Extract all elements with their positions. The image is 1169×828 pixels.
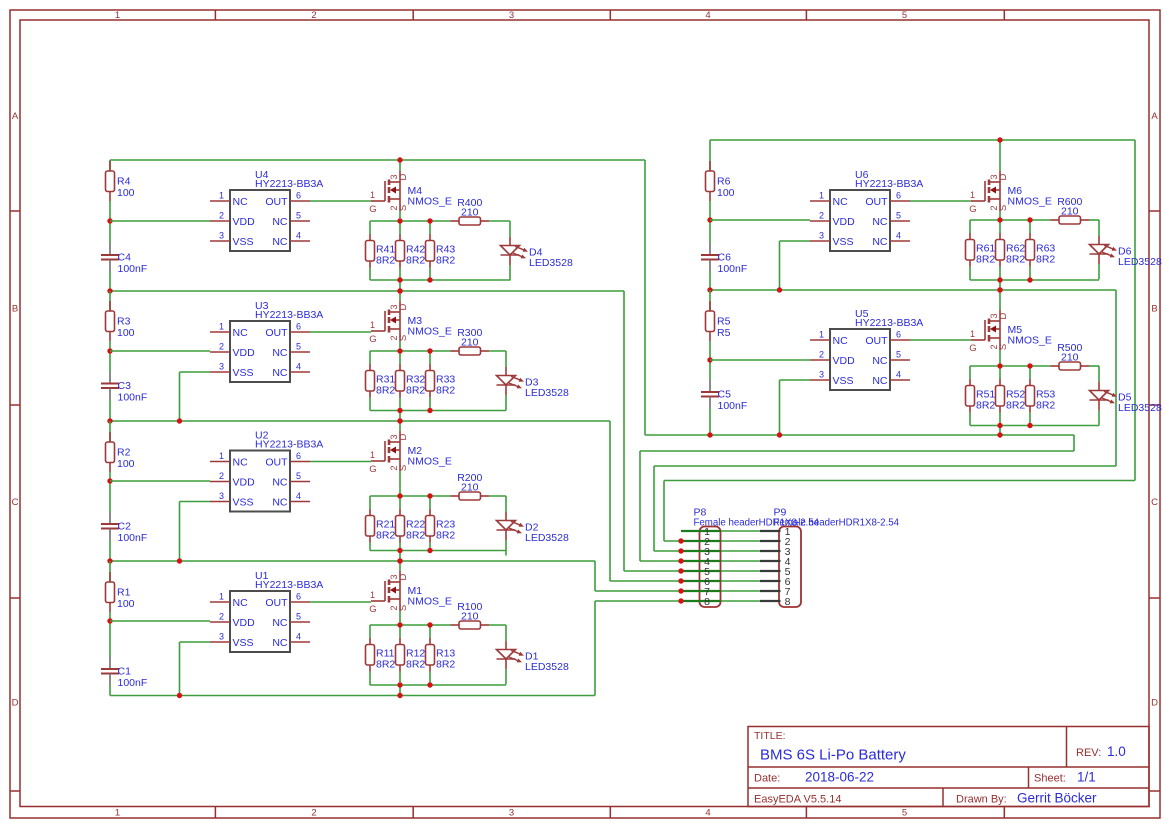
svg-text:Sheet:: Sheet: (1034, 773, 1066, 785)
resistor R23 (426, 516, 456, 542)
wire (399, 398, 401, 411)
svg-text:NMOS_E: NMOS_E (408, 196, 452, 208)
svg-text:100: 100 (117, 458, 135, 470)
wire (369, 398, 371, 411)
svg-text:D: D (998, 312, 1009, 319)
svg-text:100: 100 (117, 187, 135, 199)
wire (595, 600, 760, 602)
wire (370, 410, 506, 412)
junction (777, 287, 782, 292)
svg-text:NC: NC (272, 236, 288, 248)
svg-text:8R2: 8R2 (406, 255, 425, 267)
wire (399, 551, 401, 562)
resistor R52 (996, 386, 1026, 412)
svg-text:100nF: 100nF (718, 400, 748, 412)
wire (110, 695, 595, 697)
svg-text:NC: NC (233, 327, 249, 339)
svg-text:2: 2 (219, 612, 224, 622)
wire (369, 625, 371, 638)
svg-text:100nF: 100nF (118, 677, 148, 689)
capacitor C4 (101, 243, 147, 275)
wire (970, 219, 1051, 221)
svg-text:4: 4 (705, 10, 710, 21)
capacitor C6 (701, 243, 747, 275)
svg-text:LED3528: LED3528 (1118, 256, 1162, 268)
svg-text:B: B (1151, 304, 1157, 315)
LED D4 (501, 221, 573, 281)
svg-text:G: G (969, 343, 976, 354)
resistor R11 (366, 645, 396, 671)
wire (399, 221, 401, 234)
wire (109, 221, 111, 243)
svg-text:3: 3 (819, 231, 824, 241)
wire (999, 220, 1001, 233)
svg-text:2: 2 (219, 342, 224, 352)
wire (999, 366, 1001, 379)
svg-text:OUT: OUT (265, 456, 288, 468)
wire (969, 379, 971, 386)
svg-text:VSS: VSS (233, 637, 254, 649)
svg-text:NC: NC (233, 196, 249, 208)
svg-text:TITLE:: TITLE: (754, 730, 786, 742)
svg-text:R2: R2 (117, 447, 131, 459)
svg-text:1: 1 (370, 320, 375, 330)
resistor R1 (106, 582, 135, 610)
wire (429, 509, 431, 516)
svg-text:3: 3 (819, 370, 824, 380)
svg-text:NC: NC (233, 456, 249, 468)
junction (107, 348, 112, 353)
wire (399, 496, 401, 509)
svg-text:100nF: 100nF (718, 263, 748, 275)
wire (110, 220, 210, 222)
svg-text:1: 1 (219, 451, 224, 461)
wire (970, 425, 1099, 427)
svg-text:2: 2 (819, 350, 824, 360)
wire (110, 290, 624, 292)
junction (397, 418, 402, 423)
svg-text:NC: NC (833, 335, 849, 347)
wire (969, 413, 971, 426)
resistor R400 (451, 197, 490, 225)
wire (110, 480, 210, 482)
wire (109, 561, 111, 582)
wire (1029, 379, 1031, 386)
junction (397, 418, 402, 423)
svg-text:8R2: 8R2 (976, 254, 995, 266)
resistor R51 (966, 386, 996, 412)
svg-text:8R2: 8R2 (376, 255, 395, 267)
svg-text:210: 210 (1061, 206, 1079, 218)
svg-text:4: 4 (296, 632, 301, 642)
wire (429, 543, 431, 551)
wire (109, 612, 111, 621)
svg-text:VDD: VDD (233, 617, 256, 629)
IC U4 (210, 169, 323, 251)
svg-text:G: G (369, 604, 376, 615)
wire (429, 398, 431, 411)
header P9 (760, 507, 900, 608)
wire (109, 201, 111, 221)
resistor R32 (396, 371, 426, 397)
junction (427, 548, 432, 553)
svg-text:1: 1 (115, 808, 120, 819)
svg-text:1: 1 (970, 190, 975, 200)
wire (110, 560, 595, 562)
junction (1027, 217, 1032, 222)
svg-text:8R2: 8R2 (1036, 400, 1055, 412)
svg-text:NC: NC (272, 617, 288, 629)
wire (399, 364, 401, 371)
svg-text:NC: NC (272, 367, 288, 379)
wire (780, 240, 811, 242)
wire (370, 624, 451, 626)
junction (107, 418, 112, 423)
svg-text:Gerrit Böcker: Gerrit Böcker (1017, 791, 1097, 806)
wire (1029, 267, 1031, 281)
svg-text:8R2: 8R2 (376, 385, 395, 397)
svg-text:C: C (1151, 497, 1158, 508)
wire (489, 220, 510, 222)
svg-text:3: 3 (509, 10, 514, 21)
junction (678, 578, 683, 583)
svg-text:8R2: 8R2 (376, 659, 395, 671)
wire (1029, 366, 1031, 379)
svg-text:4: 4 (296, 231, 301, 241)
svg-text:VSS: VSS (233, 236, 254, 248)
wire (709, 360, 711, 380)
wire (1029, 220, 1031, 233)
wire (369, 496, 371, 509)
junction (427, 348, 432, 353)
junction (177, 558, 182, 563)
wire (594, 601, 596, 696)
svg-text:6: 6 (896, 191, 901, 201)
svg-text:5: 5 (902, 808, 907, 819)
wire (709, 140, 711, 171)
svg-text:VDD: VDD (833, 216, 856, 228)
capacitor C5 (701, 380, 747, 412)
wire (109, 351, 111, 372)
wire (653, 466, 655, 551)
wire (399, 638, 401, 645)
svg-text:NC: NC (833, 196, 849, 208)
wire (109, 160, 111, 171)
svg-text:3: 3 (219, 491, 224, 501)
svg-text:REV:: REV: (1076, 747, 1101, 759)
wire (709, 161, 711, 171)
wire (709, 220, 711, 243)
svg-text:G: G (369, 204, 376, 215)
svg-text:3: 3 (219, 362, 224, 372)
IC U2 (210, 429, 323, 511)
svg-text:8R2: 8R2 (406, 530, 425, 542)
svg-text:5: 5 (296, 612, 301, 622)
svg-text:C5: C5 (718, 389, 732, 401)
wire (369, 364, 371, 371)
resistor R22 (396, 516, 426, 542)
svg-text:VSS: VSS (233, 496, 254, 508)
wire (969, 220, 971, 233)
svg-text:2: 2 (219, 471, 224, 481)
IC U5 (810, 308, 923, 390)
wire (369, 234, 371, 241)
svg-text:LED3528: LED3528 (1118, 402, 1162, 414)
mosfet M3 (369, 291, 452, 351)
svg-text:1: 1 (819, 330, 824, 340)
svg-text:2: 2 (819, 211, 824, 221)
wire (399, 543, 401, 551)
svg-text:D: D (398, 303, 409, 310)
LED D3 (497, 351, 569, 411)
junction (997, 217, 1002, 222)
svg-text:D: D (398, 573, 409, 580)
mosfet M4 (369, 160, 452, 221)
svg-text:VDD: VDD (233, 216, 256, 228)
svg-text:100nF: 100nF (118, 532, 148, 544)
junction (997, 363, 1002, 368)
wire (399, 685, 401, 696)
svg-text:100: 100 (717, 187, 735, 199)
capacitor C2 (101, 512, 147, 544)
wire (429, 625, 431, 638)
wire (709, 201, 711, 220)
svg-text:NC: NC (272, 476, 288, 488)
junction (678, 558, 683, 563)
junction (707, 217, 712, 222)
wire (369, 221, 371, 234)
svg-text:100: 100 (117, 327, 135, 339)
svg-text:5: 5 (896, 350, 901, 360)
wire (110, 350, 210, 352)
wire (429, 638, 431, 645)
wire (624, 570, 760, 572)
junction (107, 558, 112, 563)
svg-text:D: D (398, 433, 409, 440)
wire (910, 200, 971, 202)
wire (370, 550, 506, 552)
wire (639, 451, 641, 561)
svg-text:VSS: VSS (833, 375, 854, 387)
svg-text:8R2: 8R2 (1006, 400, 1025, 412)
junction (997, 287, 1002, 292)
svg-text:5: 5 (902, 10, 907, 21)
wire (780, 379, 811, 381)
svg-text:HY2213-BB3A: HY2213-BB3A (255, 439, 323, 451)
junction (707, 287, 712, 292)
wire (109, 400, 111, 422)
wire (179, 642, 181, 696)
svg-text:R5: R5 (717, 316, 731, 328)
junction (397, 558, 402, 563)
svg-text:NC: NC (272, 496, 288, 508)
mosfet M6 (969, 140, 1052, 220)
LED D5 (1090, 366, 1162, 426)
IC U3 (210, 300, 323, 382)
svg-text:8R2: 8R2 (376, 530, 395, 542)
junction (427, 493, 432, 498)
svg-text:8R2: 8R2 (1036, 254, 1055, 266)
wire (369, 543, 371, 551)
svg-text:1: 1 (970, 329, 975, 339)
mosfet M1 (369, 561, 452, 625)
svg-text:210: 210 (461, 482, 479, 494)
resistor R5 (706, 311, 731, 339)
svg-text:NMOS_E: NMOS_E (408, 326, 452, 338)
svg-text:4: 4 (296, 491, 301, 501)
wire (369, 268, 371, 281)
junction (427, 622, 432, 627)
wire (710, 219, 810, 221)
wire (179, 502, 181, 562)
wire (180, 371, 211, 373)
resistor R21 (366, 516, 396, 542)
wire (399, 234, 401, 241)
junction (397, 682, 402, 687)
svg-text:2: 2 (311, 808, 316, 819)
junction (678, 568, 683, 573)
svg-text:4: 4 (896, 370, 901, 380)
wire (710, 289, 1116, 291)
wire (999, 426, 1001, 436)
svg-text:3: 3 (219, 231, 224, 241)
junction (997, 137, 1002, 142)
svg-text:Drawn By:: Drawn By: (956, 794, 1007, 806)
wire (399, 411, 401, 422)
wire (399, 672, 401, 686)
junction (397, 558, 402, 563)
resistor R42 (396, 241, 426, 267)
svg-text:R6: R6 (717, 176, 731, 188)
svg-text:Date:: Date: (754, 773, 780, 785)
junction (427, 408, 432, 413)
wire (1029, 413, 1031, 426)
svg-text:BMS 6S Li-Po Battery: BMS 6S Li-Po Battery (760, 747, 906, 764)
svg-text:HY2213-BB3A: HY2213-BB3A (255, 579, 323, 591)
wire (429, 364, 431, 371)
resistor R33 (426, 371, 456, 397)
svg-text:C6: C6 (718, 252, 732, 264)
wire (109, 271, 111, 291)
svg-text:Female headerHDR1X8-2.54: Female headerHDR1X8-2.54 (774, 518, 900, 529)
svg-text:8R2: 8R2 (406, 385, 425, 397)
svg-text:VSS: VSS (233, 367, 254, 379)
wire (369, 509, 371, 516)
wire (1115, 290, 1117, 466)
svg-text:5: 5 (296, 471, 301, 481)
svg-text:C4: C4 (118, 252, 132, 264)
resistor R61 (966, 240, 996, 266)
svg-text:OUT: OUT (865, 196, 888, 208)
svg-text:1: 1 (370, 190, 375, 200)
wire (109, 472, 111, 481)
wire (310, 601, 371, 603)
svg-text:6: 6 (296, 451, 301, 461)
svg-text:R4: R4 (117, 176, 131, 188)
junction (678, 548, 683, 553)
junction (707, 432, 712, 437)
svg-text:VDD: VDD (833, 355, 856, 367)
header P8 (681, 507, 820, 608)
svg-text:4: 4 (896, 231, 901, 241)
svg-text:1: 1 (219, 592, 224, 602)
resistor R43 (426, 241, 456, 267)
wire (399, 351, 401, 364)
svg-text:OUT: OUT (265, 327, 288, 339)
wire (109, 685, 111, 696)
svg-text:D: D (12, 698, 19, 709)
svg-text:NC: NC (233, 597, 249, 609)
wire (310, 461, 371, 463)
svg-text:8R2: 8R2 (436, 385, 455, 397)
svg-text:OUT: OUT (865, 335, 888, 347)
wire (109, 572, 111, 582)
svg-text:LED3528: LED3528 (525, 532, 569, 544)
svg-text:2: 2 (311, 10, 316, 21)
wire (610, 580, 760, 582)
svg-text:NMOS_E: NMOS_E (1008, 335, 1052, 347)
wire (970, 365, 1051, 367)
wire (369, 351, 371, 364)
wire (1029, 233, 1031, 240)
wire (969, 233, 971, 240)
svg-text:1.0: 1.0 (1107, 744, 1126, 759)
wire (664, 540, 760, 542)
wire (1089, 365, 1099, 367)
capacitor C3 (101, 372, 147, 404)
wire (370, 495, 451, 497)
svg-text:HY2213-BB3A: HY2213-BB3A (255, 178, 323, 190)
LED D1 (497, 625, 569, 685)
svg-text:3: 3 (219, 632, 224, 642)
svg-text:6: 6 (896, 330, 901, 340)
wire (594, 561, 596, 591)
resistor R63 (1026, 240, 1056, 266)
junction (397, 548, 402, 553)
wire (429, 351, 431, 364)
svg-text:NMOS_E: NMOS_E (408, 596, 452, 608)
svg-text:C3: C3 (118, 380, 132, 392)
svg-text:8R2: 8R2 (436, 255, 455, 267)
svg-text:G: G (369, 334, 376, 345)
junction (397, 622, 402, 627)
svg-text:6: 6 (296, 322, 301, 332)
wire (310, 331, 371, 333)
wire (999, 233, 1001, 240)
resistor R600 (1051, 196, 1090, 224)
svg-text:EasyEDA V5.5.14: EasyEDA V5.5.14 (754, 794, 841, 806)
wire (710, 139, 1135, 141)
wire (110, 420, 610, 422)
wire (779, 241, 781, 290)
wire (910, 339, 971, 341)
svg-text:1: 1 (219, 191, 224, 201)
svg-text:210: 210 (461, 611, 479, 623)
resistor R12 (396, 645, 426, 671)
wire (663, 481, 665, 542)
IC U6 (810, 169, 923, 251)
wire (489, 350, 506, 352)
wire (109, 421, 111, 442)
svg-text:R3: R3 (117, 316, 131, 328)
svg-text:2018-06-22: 2018-06-22 (805, 770, 874, 785)
svg-text:VDD: VDD (233, 347, 256, 359)
svg-text:100: 100 (117, 598, 135, 610)
wire (370, 350, 451, 352)
wire (399, 268, 401, 281)
wire (399, 625, 401, 638)
wire (969, 366, 971, 379)
